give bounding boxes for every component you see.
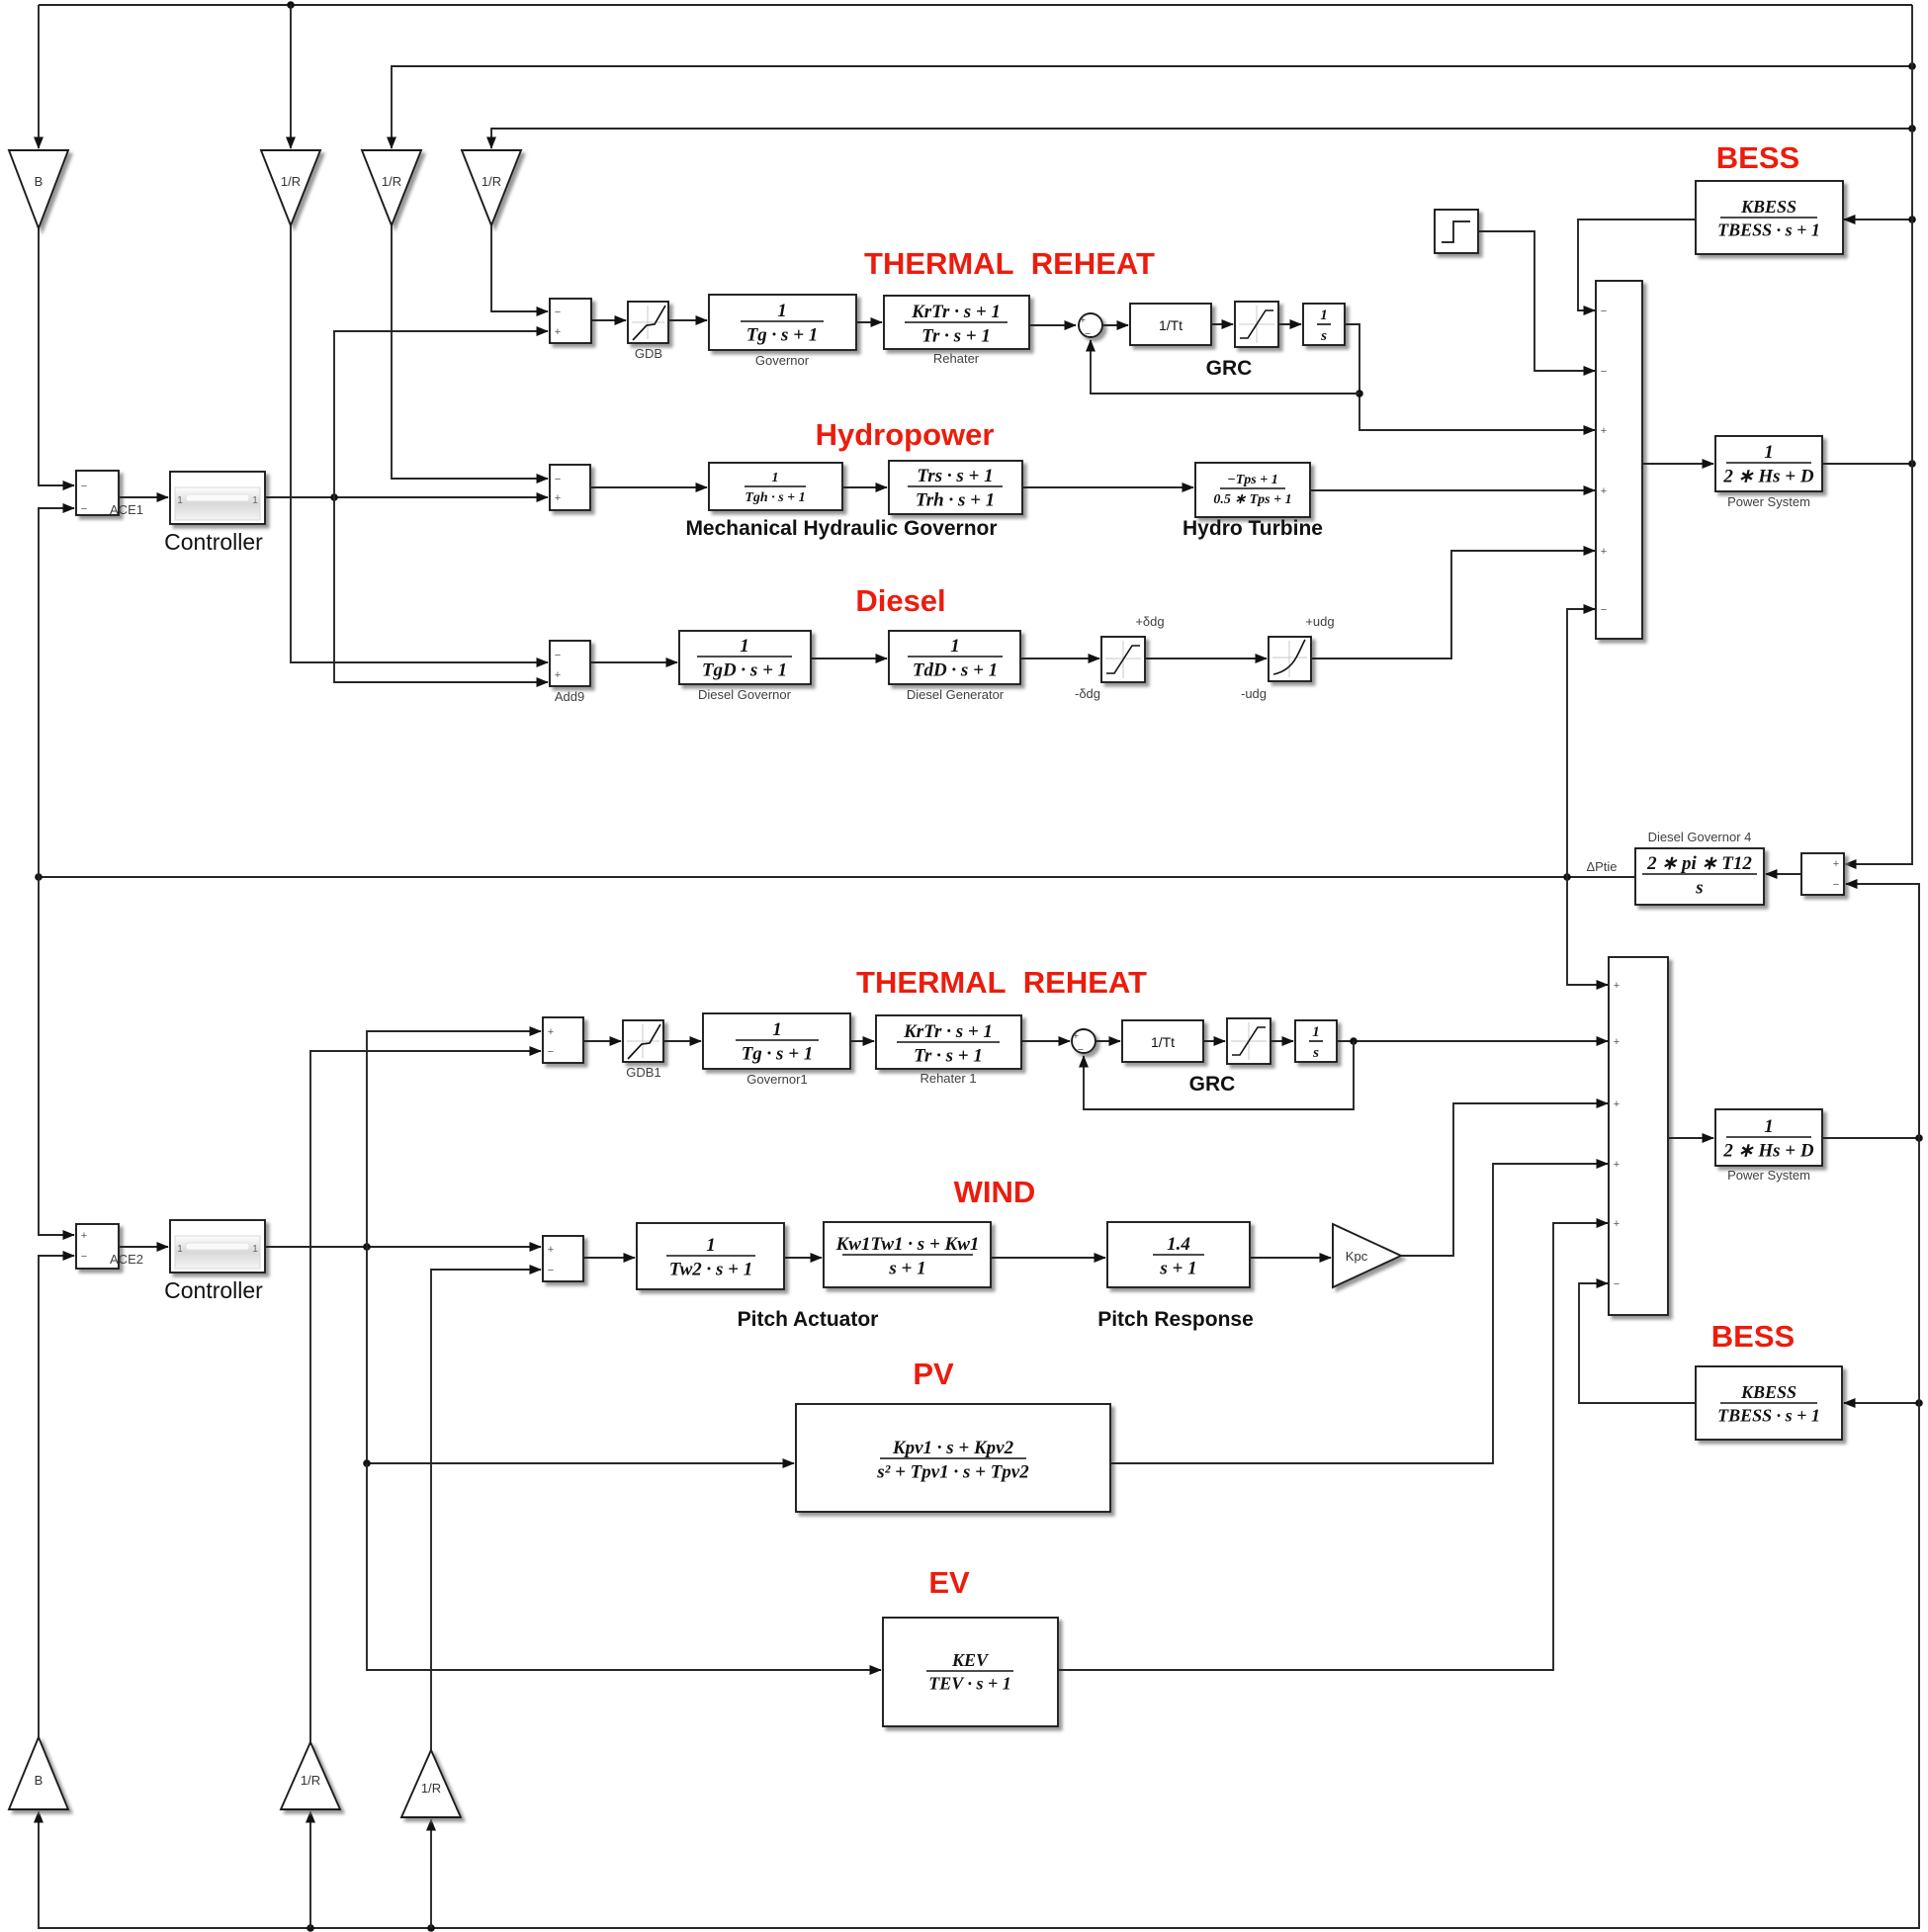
svg-text:TBESS · s + 1: TBESS · s + 1 <box>1717 220 1820 240</box>
svg-text:s: s <box>1312 1045 1319 1061</box>
block EV KEV/(TEV s+1) <box>883 1618 1058 1726</box>
sum block Add9 (diesel, area1) <box>550 641 590 686</box>
svg-text:1: 1 <box>177 495 183 506</box>
svg-text:+: + <box>555 326 561 338</box>
deadband block GDB <box>628 302 668 343</box>
block 1/Tt (area2) <box>1122 1020 1203 1062</box>
svg-text:Controller: Controller <box>164 1277 263 1303</box>
wire: drop from top rail into 1/R (thermal) <box>290 5 292 148</box>
svg-text:ΔPtie: ΔPtie <box>1586 859 1617 874</box>
svg-text:Power System: Power System <box>1727 1168 1810 1183</box>
svg-text:1.4: 1.4 <box>1167 1234 1190 1255</box>
sum block (generation summing, area 2) <box>1609 957 1668 1315</box>
sum circle GRC (area 1) <box>1079 313 1102 337</box>
wire: Governor to Rehater <box>856 321 882 323</box>
block Diesel Governor 1/(TgD s+1) <box>679 631 811 684</box>
sum block thermal (area 1) <box>550 299 591 343</box>
block 1.4/(s+1) <box>1107 1222 1250 1287</box>
wire: branch down to PV input <box>367 1247 794 1463</box>
wire: GRC feedback to sum circle <box>1091 340 1359 394</box>
saturation block +/-ddg <box>1101 637 1145 682</box>
svg-text:0.5 ∗ Tps + 1: 0.5 ∗ Tps + 1 <box>1213 492 1291 507</box>
block 1/Tt <box>1130 304 1211 345</box>
svg-text:1: 1 <box>777 301 787 321</box>
svg-text:1: 1 <box>252 1244 258 1255</box>
wire: limiter to integrator 1/s <box>1278 323 1301 325</box>
svg-text:GRC: GRC <box>1189 1073 1236 1096</box>
svg-text:−: − <box>1085 328 1091 340</box>
wire: node F2 into BESS2 input <box>1844 1402 1919 1404</box>
junction: node F2 <box>1915 1134 1923 1142</box>
svg-text:1/Tt: 1/Tt <box>1151 1034 1175 1050</box>
junction: bottom rail to 1/R b2 <box>307 1924 314 1932</box>
wire: Hydro Turbine to mux in4 <box>1310 489 1595 491</box>
wire: B1 output to sum ACE1 input 1 <box>39 228 74 485</box>
svg-text:+: + <box>548 1026 554 1038</box>
block (Kw1Tw1 s+Kw1)/(s+1) <box>824 1222 991 1287</box>
wire: area1 feedback rail y=67 to 1/R hydro <box>392 66 1912 148</box>
wire: wind sum to pitch actuator 1 <box>583 1257 635 1259</box>
gain 1/R3 (droop, area1 hydro column) <box>362 150 421 225</box>
deadband block GDB1 <box>623 1020 663 1062</box>
svg-text:+: + <box>1614 1098 1620 1110</box>
svg-text:+: + <box>1833 858 1839 870</box>
svg-text:Tr · s + 1: Tr · s + 1 <box>921 326 991 347</box>
svg-text:Diesel: Diesel <box>855 583 945 618</box>
svg-text:1: 1 <box>1312 1024 1320 1040</box>
wire: to pitch response <box>991 1257 1105 1259</box>
svg-text:Add9: Add9 <box>555 689 584 704</box>
wire: Kpc output up to mux2 in3 <box>1401 1103 1608 1256</box>
svg-text:B: B <box>35 174 44 189</box>
gain B1 (frequency bias, area 1) <box>9 150 68 228</box>
svg-text:−: − <box>548 1265 554 1276</box>
svg-text:s² + Tpv1 · s + Tpv2: s² + Tpv1 · s + Tpv2 <box>876 1462 1029 1483</box>
wire: limiter to integrator (area2) <box>1271 1040 1293 1042</box>
svg-text:KBESS: KBESS <box>1740 1382 1797 1402</box>
svg-text:+: + <box>555 492 561 504</box>
wire: node F2 column down and bottom rail <box>39 884 1919 1928</box>
wire: 1/s output to mux2 in2 <box>1337 1040 1608 1042</box>
svg-text:KrTr · s + 1: KrTr · s + 1 <box>911 302 1001 322</box>
svg-text:GDB1: GDB1 <box>626 1065 660 1080</box>
svg-text:PV: PV <box>913 1357 954 1391</box>
svg-text:Mechanical Hydraulic Governor: Mechanical Hydraulic Governor <box>685 517 997 540</box>
svg-text:Pitch Response: Pitch Response <box>1097 1308 1254 1331</box>
wire: GDB1 to Governor1 <box>663 1040 701 1042</box>
junction: GRC2 feedback tap <box>1350 1037 1358 1045</box>
svg-text:s: s <box>1320 328 1327 344</box>
svg-text:+: + <box>1601 485 1607 497</box>
svg-text:+: + <box>1080 314 1086 326</box>
block Governor1 1/(Tg s+1) <box>703 1013 850 1069</box>
svg-text:Trs · s + 1: Trs · s + 1 <box>917 466 993 486</box>
junction: rail y=130 joins node F1 column <box>1908 125 1916 132</box>
wire: BESS1 output to mux in1 <box>1578 220 1696 310</box>
svg-text:Kpc: Kpc <box>1346 1249 1368 1264</box>
svg-text:BESS: BESS <box>1711 1319 1795 1354</box>
svg-text:1: 1 <box>950 636 960 657</box>
wire: GRC sum to 1/Tt <box>1102 324 1128 326</box>
junction: rail y=67 joins node F1 column <box>1908 62 1916 70</box>
svg-text:1: 1 <box>1320 307 1328 323</box>
svg-text:Tw2 · s + 1: Tw2 · s + 1 <box>669 1260 753 1280</box>
svg-text:−: − <box>555 474 561 485</box>
svg-text:Controller: Controller <box>164 529 263 555</box>
svg-text:−: − <box>81 481 87 492</box>
sum block hydro (area1) <box>550 465 590 510</box>
svg-text:1: 1 <box>772 471 779 485</box>
svg-text:1/Tt: 1/Tt <box>1159 317 1183 333</box>
svg-text:2 ∗ pi ∗ T12: 2 ∗ pi ∗ T12 <box>1646 853 1752 874</box>
svg-text:Tr · s + 1: Tr · s + 1 <box>914 1046 983 1067</box>
sum block tie-line difference <box>1801 853 1844 895</box>
wire: tie-line block output west (dPtie) <box>39 876 1635 878</box>
svg-text:−: − <box>81 1251 87 1263</box>
wire: node F1 column x=1934 <box>1845 5 1912 864</box>
junction: top rail to 1/R drop at x=294 <box>287 1 295 9</box>
block Power System 2 1/(2*Hs+D) <box>1715 1109 1822 1166</box>
junction: dPtie branch to area1 mux <box>1563 873 1571 881</box>
wire: dPtie up to ACE1 sum input 2 <box>39 508 74 877</box>
gain 1/R b3 (droop, area2 wind) <box>401 1750 461 1817</box>
wire: hydro sum to MHG <box>590 486 707 488</box>
svg-text:Power System: Power System <box>1727 494 1810 509</box>
sum block wind <box>543 1236 583 1281</box>
wire: 1/Rb2 output up to thermal2 sum input 2 <box>310 1051 541 1742</box>
svg-text:−: − <box>1601 306 1607 317</box>
svg-text:s + 1: s + 1 <box>888 1259 925 1279</box>
wire: 1/R4 output down to thermal sum input 1 <box>491 225 548 311</box>
saturation block (GRC rate limit, area1) <box>1235 302 1278 347</box>
svg-text:Diesel Governor 4: Diesel Governor 4 <box>1648 830 1752 844</box>
wire: 1/s output east then down <box>1345 324 1595 430</box>
sum circle GRC (area 2) <box>1072 1029 1095 1053</box>
wire: 1/R3 output down to hydro sum input 1 <box>392 225 548 479</box>
svg-text:Diesel Governor: Diesel Governor <box>698 687 792 702</box>
svg-text:TBESS · s + 1: TBESS · s + 1 <box>1717 1406 1820 1426</box>
svg-text:Tg · s + 1: Tg · s + 1 <box>742 1044 814 1065</box>
wire: dPtie down to ACE2 sum input 1 <box>39 877 74 1235</box>
block Rehater (KrTr s+1)/(Tr s+1) <box>884 296 1029 349</box>
svg-text:1: 1 <box>252 495 258 506</box>
svg-text:Governor: Governor <box>755 353 810 368</box>
svg-text:−: − <box>1078 1044 1084 1056</box>
svg-text:GRC: GRC <box>1206 357 1253 380</box>
wire: 1/R2 output down to Add9 input 1 <box>291 225 548 662</box>
gain Kpc <box>1333 1224 1401 1287</box>
saturation block (GRC rate limit, area2) <box>1227 1018 1271 1064</box>
wire: up to gain 1/R b2 <box>309 1811 311 1928</box>
svg-text:−: − <box>1833 879 1839 891</box>
wire: EV output up to mux2 in5 <box>1058 1223 1608 1670</box>
wire: B2 output up to ACE2 input 2 <box>39 1256 74 1737</box>
wire: MHG to Trs block <box>842 486 887 488</box>
wire: 1/Tt to rate limiter <box>1211 323 1233 325</box>
block tie line 2*pi*T12/s <box>1635 848 1764 905</box>
wire: node F1 into BESS1 input <box>1844 219 1912 220</box>
wire: Rehater1 to GRC2 sum circle <box>1021 1040 1070 1042</box>
junction: GRC feedback tap <box>1356 390 1363 397</box>
svg-text:s: s <box>1695 878 1703 899</box>
step block (load disturbance, area1) <box>1435 210 1478 253</box>
svg-text:1: 1 <box>706 1235 716 1256</box>
svg-text:1: 1 <box>1764 1116 1774 1137</box>
svg-text:Governor1: Governor1 <box>746 1072 807 1087</box>
svg-text:+: + <box>1614 1218 1620 1230</box>
svg-text:+: + <box>555 669 561 681</box>
wire: BESS2 output up to mux2 in6 <box>1579 1283 1696 1403</box>
svg-text:+: + <box>1601 425 1607 437</box>
svg-text:-δdg: -δdg <box>1075 686 1100 701</box>
svg-text:2 ∗ Hs + D: 2 ∗ Hs + D <box>1722 467 1813 487</box>
gain 1/R2 (droop, area1 diesel column) <box>261 150 320 225</box>
svg-text:TgD · s + 1: TgD · s + 1 <box>702 660 787 681</box>
svg-text:Kw1Tw1 · s + Kw1: Kw1Tw1 · s + Kw1 <box>835 1234 980 1255</box>
wire: branch down to Add9 input 2 <box>334 497 548 682</box>
svg-text:Diesel Generator: Diesel Generator <box>907 687 1005 702</box>
svg-text:Pitch Actuator: Pitch Actuator <box>738 1308 879 1331</box>
svg-text:1/R: 1/R <box>281 174 301 189</box>
wire: GRC2 sum to 1/Tt <box>1095 1040 1120 1042</box>
svg-text:WIND: WIND <box>954 1175 1036 1209</box>
junction: controller1 output branch at x=338 <box>330 493 338 501</box>
wire: pitch response to Kpc <box>1250 1257 1331 1259</box>
block Hydro Turbine (-Tps+1)/(0.5*Tps+1) <box>1195 463 1310 517</box>
svg-text:+: + <box>548 1244 554 1256</box>
svg-text:TEV · s + 1: TEV · s + 1 <box>928 1674 1010 1694</box>
svg-text:TdD · s + 1: TdD · s + 1 <box>913 660 998 681</box>
svg-text:−: − <box>1601 604 1607 616</box>
svg-text:KEV: KEV <box>951 1650 990 1670</box>
wire: ACE2 to Controller 2 <box>119 1246 168 1248</box>
wire: branch down to EV input <box>367 1463 881 1670</box>
block PV (Kpv1 s+Kpv2)/(s^2+Tpv1 s+Tpv2) <box>796 1404 1110 1512</box>
svg-text:Hydro Turbine: Hydro Turbine <box>1183 517 1323 540</box>
wire: step to mux in2 <box>1478 231 1595 371</box>
svg-text:+udg: +udg <box>1305 614 1334 629</box>
controller inner band (area2) <box>175 1236 260 1269</box>
svg-text:+: + <box>1073 1030 1079 1042</box>
sum block thermal (area 2) <box>543 1017 583 1063</box>
wire: dPtie up to mux1 in6 <box>1567 609 1595 877</box>
svg-text:−Tps + 1: −Tps + 1 <box>1227 473 1277 487</box>
svg-text:Tg · s + 1: Tg · s + 1 <box>746 325 819 346</box>
junction: controller2 branch x=371 <box>363 1243 371 1251</box>
wire: Power System 1 output to node F1 <box>1822 463 1912 465</box>
wire: diesel output up to mux in5 <box>1311 551 1595 659</box>
svg-text:-udg: -udg <box>1241 686 1267 701</box>
svg-text:+: + <box>81 1230 87 1242</box>
svg-text:Rehater: Rehater <box>933 351 980 366</box>
svg-text:Hydropower: Hydropower <box>816 417 995 452</box>
wire: thermal sum to GDB <box>591 319 626 321</box>
block Governor 1/(Tg s+1) <box>709 295 856 350</box>
wire: node F2 up into tie sum minus <box>1846 884 1919 1138</box>
svg-text:1/R: 1/R <box>482 174 501 189</box>
wire: up to gain 1/R b3 <box>430 1819 432 1928</box>
svg-text:ACE2: ACE2 <box>110 1252 143 1267</box>
wire: ACE1 sum output to Controller <box>119 496 168 498</box>
wire: Governor1 to Rehater1 <box>850 1040 874 1042</box>
svg-text:−: − <box>1601 366 1607 378</box>
block Rehater 1 (KrTr s+1)/(Tr s+1) <box>876 1015 1021 1069</box>
svg-text:THERMAL REHEAT: THERMAL REHEAT <box>856 965 1147 1000</box>
svg-text:−: − <box>555 650 561 661</box>
svg-text:1: 1 <box>177 1244 183 1255</box>
wire: Rehater to GRC sum circle <box>1029 324 1076 326</box>
wire: thermal2 sum to GDB1 <box>583 1040 621 1042</box>
wire: dPtie down to mux2 in1 <box>1567 877 1608 985</box>
svg-text:THERMAL REHEAT: THERMAL REHEAT <box>864 246 1155 281</box>
svg-text:−: − <box>81 503 87 515</box>
svg-text:1: 1 <box>772 1019 782 1040</box>
wire: tie sum output to tie-line block <box>1766 873 1801 875</box>
svg-text:+: + <box>1601 546 1607 558</box>
block Diesel Generator 1/(TdD s+1) <box>889 631 1020 684</box>
junction: dPtie at left column <box>35 873 43 881</box>
wire: Controller2 output to wind sum input 1 <box>265 1246 541 1248</box>
wire: Controller1 output east <box>265 496 548 498</box>
wire: GRC2 feedback loop <box>1084 1041 1354 1109</box>
svg-text:2 ∗ Hs + D: 2 ∗ Hs + D <box>1722 1141 1813 1162</box>
wire: area1 frequency feedback top rail y=5 (from node F1 to B and 1/R gains) <box>39 4 1912 6</box>
wire: area1 feedback rail y=130 to 1/R diesel <box>491 129 1912 148</box>
svg-text:+: + <box>1614 980 1620 992</box>
block KBESS/(TBESS s+1) (area1) <box>1696 181 1843 254</box>
wire: Power System 2 output to node F2 <box>1822 1137 1919 1139</box>
svg-text:GDB: GDB <box>635 346 662 361</box>
svg-text:BESS: BESS <box>1716 140 1799 175</box>
sum block ACE2 (area 2) <box>76 1224 119 1269</box>
svg-text:EV: EV <box>928 1565 970 1600</box>
wire: mux2 to Power System 2 <box>1668 1137 1713 1139</box>
wire: Diesel Governor to Diesel Generator <box>811 658 887 659</box>
wire: 1/Rb3 output up to wind sum input 2 <box>431 1270 541 1750</box>
gain 1/R b2 (droop, area2 thermal) <box>281 1742 340 1809</box>
wire: droop block to Hydro Turbine <box>1022 486 1193 488</box>
svg-text:+δdg: +δdg <box>1135 614 1164 629</box>
svg-text:1/R: 1/R <box>421 1781 441 1796</box>
sum block (generation summing, area 1) <box>1596 281 1642 639</box>
svg-text:+: + <box>1614 1159 1620 1171</box>
wire: to Kw1Tw1 block <box>784 1257 822 1259</box>
wire: 1/Tt to limiter (area2) <box>1203 1040 1225 1042</box>
junction: F1 column to BESS1 <box>1908 216 1916 223</box>
svg-text:−: − <box>555 307 561 318</box>
block hydro transient droop (Trs s+1)/(Trh s+1) <box>889 461 1022 514</box>
junction: bottom rail to 1/R b3 <box>427 1924 435 1932</box>
wire: drop from top rail into gain B <box>38 5 40 148</box>
svg-text:1: 1 <box>1764 442 1774 463</box>
svg-text:−: − <box>548 1046 554 1058</box>
svg-text:−: − <box>1614 1278 1620 1290</box>
wire: Add9 to Diesel Governor <box>590 661 677 663</box>
wire: ddg limiter to udg block <box>1145 658 1267 659</box>
gain B2 (frequency bias, area 2) <box>9 1737 68 1809</box>
block integrator 1/s (area1) <box>1303 304 1345 345</box>
wire: Diesel Generator to delta-dg limiter <box>1020 658 1099 659</box>
controller inner band (area1) <box>175 487 260 520</box>
block Power System 1 1/(2*Hs+D) <box>1715 436 1822 491</box>
junction: node F1 <box>1908 460 1916 468</box>
svg-text:ACE1: ACE1 <box>110 502 143 517</box>
block KBESS/(TBESS s+1) (area2) <box>1696 1366 1842 1440</box>
svg-text:1: 1 <box>740 636 749 657</box>
wire: branch up to thermal sum input 2 <box>334 331 548 497</box>
svg-text:Rehater 1: Rehater 1 <box>920 1071 976 1086</box>
svg-text:KrTr · s + 1: KrTr · s + 1 <box>903 1021 993 1042</box>
junction: PV tap <box>363 1459 371 1467</box>
block 1/(Tw2 s+1) <box>637 1223 784 1289</box>
gain 1/R4 (droop, area1 thermal column) <box>462 150 521 225</box>
sum block ACE1 (area 1) <box>76 471 119 515</box>
svg-text:+: + <box>1614 1036 1620 1048</box>
block integrator 1/s (area2) <box>1295 1020 1337 1062</box>
rate block +/-udg <box>1269 637 1311 681</box>
wire: GDB to Governor <box>668 319 707 321</box>
svg-text:Tgh · s + 1: Tgh · s + 1 <box>745 490 805 505</box>
wire: PV output up to mux2 in4 <box>1110 1164 1608 1463</box>
svg-text:Trh · s + 1: Trh · s + 1 <box>916 490 995 511</box>
subsystem block Controller (area 2) <box>170 1220 265 1273</box>
junction: F2 column to BESS2 <box>1915 1399 1923 1407</box>
subsystem block Controller (area 1) <box>170 472 265 524</box>
svg-text:B: B <box>35 1773 44 1788</box>
wire: branch up to thermal2 sum input 1 <box>367 1031 541 1247</box>
svg-text:1/R: 1/R <box>301 1773 320 1788</box>
svg-text:Kpv1 · s + Kpv2: Kpv1 · s + Kpv2 <box>892 1438 1014 1458</box>
wire: mux1 to Power System 1 <box>1642 463 1713 465</box>
svg-text:s + 1: s + 1 <box>1159 1259 1196 1279</box>
svg-text:1/R: 1/R <box>382 174 401 189</box>
block Mechanical Hydraulic Governor 1/(Tgh s+1) <box>709 463 842 510</box>
svg-text:KBESS: KBESS <box>1740 197 1797 217</box>
